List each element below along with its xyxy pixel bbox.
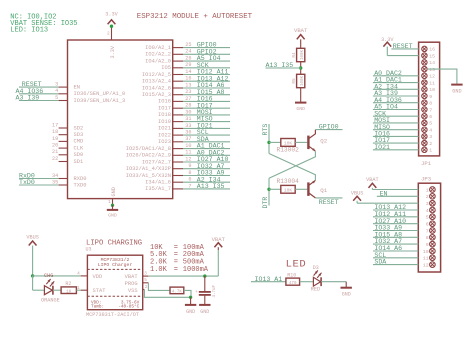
ESP3212 module U1 body [68, 40, 173, 199]
svg-text:9: 9 [429, 94, 432, 100]
svg-text:GND: GND [108, 212, 117, 218]
svg-text:10: 10 [429, 87, 435, 93]
svg-text:TXD0: TXD0 [74, 182, 87, 188]
U1 right pin 8 stub [173, 175, 183, 177]
JP1 pin 5 circle [422, 120, 427, 125]
wire R4 to node A13_I35 [300, 62, 302, 75]
wire net A5_IO4 [183, 60, 230, 62]
wire U3 VBAT to VBAT supply [148, 275, 218, 277]
JP1 pin 3 circle [422, 134, 427, 139]
wire VBUS down to VDD node [32, 246, 34, 276]
U1 left pin 34 stub [59, 178, 68, 180]
wire RTS to R13002 [269, 141, 281, 143]
JP3 pin 5 circle [430, 214, 436, 220]
svg-text:Tamb:: Tamb: [91, 304, 104, 309]
wire CHG LED to R2 [53, 289, 61, 291]
U1 left pin 5 stub [59, 100, 68, 102]
svg-text:2: 2 [145, 285, 148, 290]
svg-text:IO36/SEN_UP/A1_0: IO36/SEN_UP/A1_0 [74, 91, 126, 97]
svg-text:IO39/SEN_UN/A1_3: IO39/SEN_UN/A1_3 [74, 98, 126, 104]
U1 right pin 10 stub [173, 148, 183, 150]
wire net RESET from Q1 collector [315, 197, 342, 199]
wire net IO32_A7 to JP3 pin 9 [373, 243, 418, 245]
wire net IO15_A8 to JP3 pin 8 [373, 236, 418, 238]
JP3 pin 1 circle [430, 187, 436, 193]
svg-text:LED: LED [286, 259, 307, 271]
svg-text:RESET: RESET [393, 43, 413, 50]
svg-text:GND: GND [200, 309, 209, 315]
wire net IO13 to R10 [251, 281, 286, 283]
wire VBAT to JP3 pin 1 [372, 189, 418, 191]
svg-text:A3_I39: A3_I39 [16, 95, 40, 102]
wire net IO27_A10 [183, 161, 230, 163]
svg-text:2: 2 [107, 32, 110, 37]
svg-text:20: 20 [52, 143, 58, 149]
U1 left pin 21 (SD0) stub [59, 154, 68, 156]
svg-text:2: 2 [429, 141, 432, 147]
svg-text:1: 1 [429, 148, 432, 154]
svg-text:DTR: DTR [262, 197, 269, 209]
svg-text:CLK: CLK [74, 145, 84, 151]
resistor R13002 10K [281, 139, 295, 147]
svg-text:RXD0: RXD0 [74, 176, 87, 182]
svg-text:11: 11 [429, 80, 435, 86]
wire net EN to JP3 pin 2 [377, 195, 419, 197]
U1 left pin 17 (SD2) stub [59, 127, 68, 129]
wire net MOSI [183, 114, 230, 116]
ground symbol right of JP1 [451, 84, 462, 86]
wire RTS vertical [268, 124, 270, 154]
svg-text:12: 12 [429, 74, 435, 80]
svg-text:100K: 100K [301, 49, 305, 60]
svg-text:=: = [174, 266, 178, 274]
wire net IO21 to JP1 pin 1 [373, 149, 419, 151]
svg-text:IO32/A1_4/X32P: IO32/A1_4/X32P [126, 166, 171, 172]
wire net IO32_A7 [183, 168, 230, 170]
U3 VDD pin stub [81, 275, 88, 277]
svg-text:ORANGE: ORANGE [41, 298, 60, 304]
svg-text:GND: GND [186, 309, 195, 315]
U1 right pin 36 stub [173, 134, 183, 136]
svg-text:SD2: SD2 [74, 125, 84, 131]
JP3 pin 10 circle [430, 248, 436, 254]
svg-text:R13002: R13002 [277, 147, 300, 154]
svg-text:U3: U3 [86, 246, 92, 252]
wire net SCL to JP3 pin 11 [373, 257, 418, 259]
wire net IO13_A12 [183, 80, 230, 82]
svg-text:IO2/A2_2: IO2/A2_2 [145, 52, 171, 58]
JP3 pin 7 circle [430, 228, 436, 234]
svg-text:7: 7 [429, 107, 432, 113]
svg-text:13: 13 [429, 67, 435, 73]
svg-text:5: 5 [426, 215, 429, 221]
resistor R4 100K (upper divider) [297, 48, 305, 61]
wire 3.3V to JP1 pin 15 [387, 55, 418, 57]
svg-text:Q2: Q2 [320, 137, 327, 144]
U1 right pin 25 stub [173, 47, 183, 49]
svg-text:3.3V: 3.3V [110, 45, 116, 58]
U1 right pin 12 stub [173, 161, 183, 163]
U1 top pin 2 (3.3V) stub [111, 27, 113, 41]
wire net MISO [183, 121, 230, 123]
JP3 pin 8 circle [430, 235, 436, 241]
svg-text:6: 6 [426, 222, 429, 228]
wire net RESET [19, 86, 59, 88]
svg-text:LIPO CHARGING: LIPO CHARGING [86, 240, 142, 248]
resistor R10 470 [286, 278, 300, 285]
wire net IO12_A11 to JP3 pin 5 [373, 216, 418, 218]
svg-text:VSS: VSS [128, 288, 138, 294]
svg-text:1: 1 [77, 286, 80, 291]
U1 right pin 23 stub [173, 94, 183, 96]
wire net A1_DAC1 to JP1 pin 11 [373, 82, 419, 84]
svg-text:I35/A1_7: I35/A1_7 [145, 186, 171, 192]
wire net GPIO0 [183, 47, 230, 49]
svg-text:Q1: Q1 [320, 187, 327, 194]
U1 right pin 33 stub [173, 127, 183, 129]
svg-text:1000mA: 1000mA [183, 266, 209, 274]
wire net A3_I39 to JP1 pin 9 [373, 95, 419, 97]
JP1 pin 12 circle [422, 73, 427, 78]
svg-text:SD0: SD0 [74, 152, 84, 158]
wire net GPIO0 from Q2 collector [315, 129, 342, 131]
wire net IO15_A8 [183, 94, 230, 96]
wire VSS to ground node [144, 290, 190, 298]
power symbol VBAT (right of U3) [217, 247, 219, 250]
junction dot VBAT/C1 node [203, 274, 206, 277]
wire net IO33_A9 to JP3 pin 7 [373, 230, 418, 232]
svg-text:14: 14 [429, 60, 435, 66]
JP1 pin 15 circle [422, 53, 427, 58]
svg-text:I34/A1_6: I34/A1_6 [145, 180, 171, 186]
svg-text:4.7K: 4.7K [172, 290, 183, 294]
wire net A1_DAC1 [183, 148, 230, 150]
svg-text:5: 5 [429, 121, 432, 127]
svg-text:ESP3212 MODULE + AUTORESET: ESP3212 MODULE + AUTORESET [137, 13, 253, 21]
U1 right pin 29 stub [173, 67, 183, 69]
svg-text:21: 21 [52, 149, 58, 155]
wire net A0_DAC2 to JP1 pin 12 [373, 75, 419, 77]
junction dot VSS/R6 ground node [189, 296, 192, 299]
U1 right pin 9 stub [173, 168, 183, 170]
svg-text:CMD: CMD [74, 139, 84, 145]
junction dot VBUS/VDD node [31, 274, 34, 277]
resistor R5 100K (lower divider) [297, 74, 305, 87]
svg-text:3.3V: 3.3V [381, 37, 394, 43]
svg-text:IO0/A2_1: IO0/A2_1 [145, 45, 171, 51]
wire net SCK [183, 67, 230, 69]
wire R13002 to Q2 base [295, 141, 307, 143]
ground symbol below divider [295, 102, 306, 104]
wire R5 to ground [300, 88, 302, 102]
svg-text:TxD0: TxD0 [19, 179, 35, 186]
wire net IO27_A10 to JP3 pin 6 [373, 223, 418, 225]
svg-text:VBAT: VBAT [294, 27, 308, 34]
svg-text:IO26/DAC2/A2_9: IO26/DAC2/A2_9 [126, 153, 171, 159]
U1 right pin 37 stub [173, 141, 183, 143]
wire net A3_I39 [19, 100, 59, 102]
U1 right pin 30 stub [173, 114, 183, 116]
svg-text:11: 11 [423, 256, 429, 262]
svg-text:VBAT: VBAT [212, 236, 226, 243]
wire R13004 to Q1 base [295, 188, 307, 190]
U1 left pin 22 (SD1) stub [59, 161, 68, 163]
wire net RxD0 [19, 178, 59, 180]
svg-text:19: 19 [52, 136, 58, 142]
svg-text:2: 2 [426, 194, 429, 200]
svg-text:8: 8 [429, 101, 432, 107]
svg-text:IO4/A2_0: IO4/A2_0 [145, 58, 171, 64]
svg-text:IO21: IO21 [158, 126, 171, 132]
JP3 pin 3 circle [430, 200, 436, 206]
LED D3 (red) [313, 277, 320, 286]
wire Q1 emitter to RTS node (cross) [269, 154, 315, 181]
svg-text:GPIO0: GPIO0 [319, 124, 339, 131]
svg-text:22: 22 [52, 156, 58, 162]
svg-text:7: 7 [426, 228, 429, 234]
svg-text:RESET: RESET [319, 199, 339, 206]
U1 right pin 28 stub [173, 107, 183, 109]
svg-text:SD3: SD3 [74, 132, 84, 138]
svg-text:1: 1 [426, 187, 429, 193]
wire DTR vertical [268, 178, 270, 205]
connector JP1 body [419, 42, 440, 156]
svg-text:VDD: VDD [93, 274, 103, 280]
wire VBUS node to U3 VDD [33, 275, 81, 277]
wire net IO12_A11 [183, 74, 230, 76]
U1 left pin 35 stub [59, 184, 68, 186]
power symbol 3.3V at JP1 [383, 42, 391, 47]
U1 right pin 31 stub [173, 121, 183, 123]
svg-text:3.3V: 3.3V [105, 12, 118, 18]
JP1 pin 13 circle [422, 66, 427, 71]
U1 right pin 11 stub [173, 154, 183, 156]
ground symbol below C1 [199, 304, 210, 306]
svg-text:IO12/A2_5: IO12/A2_5 [142, 72, 171, 78]
svg-text:1: 1 [108, 200, 111, 205]
svg-text:+: + [195, 290, 198, 295]
svg-text:LIPO Charger: LIPO Charger [98, 262, 133, 268]
svg-text:IO17: IO17 [158, 106, 171, 112]
junction dot node A13_I35 [299, 66, 302, 69]
svg-text:GND: GND [452, 88, 461, 94]
wire net IO14_A6 [183, 87, 230, 89]
JP1 pin 4 circle [422, 127, 427, 132]
svg-text:5: 5 [144, 278, 147, 283]
U1 right pin 6 stub [173, 181, 183, 183]
JP1 pin 16 circle [422, 46, 427, 51]
U1 left pin 3 stub [59, 86, 68, 88]
JP1 pin 7 circle [422, 107, 427, 112]
power symbol VBUS at JP3 [353, 196, 361, 201]
JP1 pin 14 circle [422, 60, 427, 65]
wire VBUS to JP3 pin 3 [357, 202, 418, 204]
junction dot RTS node [267, 141, 270, 144]
wire R6 to ground node [184, 290, 191, 297]
svg-text:R2: R2 [65, 281, 71, 287]
svg-text:R10: R10 [287, 272, 296, 278]
svg-text:IO23: IO23 [158, 139, 171, 145]
svg-text:17: 17 [52, 122, 58, 128]
JP3 pin 6 circle [430, 221, 436, 227]
svg-text:CHG: CHG [44, 273, 53, 279]
svg-text:10: 10 [423, 249, 429, 255]
JP1 pin 1 circle [422, 147, 427, 152]
svg-text:4: 4 [426, 208, 429, 214]
junction dot DTR node [267, 188, 270, 191]
svg-text:D3: D3 [313, 265, 319, 271]
ground symbol right of D3 [345, 282, 347, 287]
svg-text:GND: GND [111, 187, 117, 196]
wire LED D3 to ground [321, 281, 346, 283]
power symbol VBAT at JP3 [369, 183, 377, 188]
wire VBAT to R4 [300, 39, 302, 48]
svg-text:LED: IO13: LED: IO13 [10, 27, 48, 35]
wire net TxD0 [19, 184, 59, 186]
wire net SDA to JP3 pin 12 [373, 264, 418, 266]
svg-text:IO25/DAC1/A2_8: IO25/DAC1/A2_8 [126, 146, 171, 152]
power symbol 3.3V (top of U1) [108, 20, 116, 25]
svg-text:8: 8 [426, 235, 429, 241]
transistor Q2 (NPN) [307, 136, 309, 150]
svg-text:470: 470 [289, 282, 297, 286]
U1 right pin 26 stub [173, 60, 183, 62]
svg-text:A13_I35: A13_I35 [266, 62, 294, 69]
wire PROG to R6 [148, 283, 170, 291]
wire net A0_DAC2 [183, 154, 230, 156]
wire net A2_I34 [183, 181, 230, 183]
JP1 pin 8 circle [422, 100, 427, 105]
svg-text:GND: GND [296, 106, 305, 112]
JP3 pin 2 circle [430, 194, 436, 200]
wire R2 to U3 STAT [76, 289, 80, 291]
svg-text:3: 3 [426, 201, 429, 207]
U1 right pin 14 stub [173, 74, 183, 76]
svg-text:18: 18 [52, 129, 58, 135]
svg-text:IO33/A1_5/X32N: IO33/A1_5/X32N [126, 173, 171, 179]
wire R10 to LED D3 [300, 281, 314, 283]
charger IC U3 body MCP73831/2 [87, 255, 142, 310]
wire net SDA [183, 141, 230, 143]
wire net SCL [183, 134, 230, 136]
ground symbol below U1 [112, 205, 114, 209]
svg-text:RED: RED [311, 287, 320, 293]
capacitor C1 4.7uF [204, 276, 206, 291]
JP3 pin 4 circle [430, 207, 436, 213]
svg-text:IO16: IO16 [158, 99, 171, 105]
U1 left pin 19 (CMD) stub [59, 140, 68, 142]
svg-text:-40-85°C: -40-85°C [118, 304, 139, 309]
svg-text:IO27/A2_7: IO27/A2_7 [142, 159, 171, 165]
svg-text:GND: GND [342, 292, 351, 298]
svg-text:IO5: IO5 [161, 65, 171, 71]
wire net IO17 to JP1 pin 2 [373, 142, 419, 144]
svg-text:4: 4 [429, 128, 432, 134]
svg-text:10K: 10K [284, 188, 293, 194]
U1 right pin 27 stub [173, 100, 183, 102]
U1 left pin 18 (SD3) stub [59, 134, 68, 136]
svg-text:6: 6 [429, 114, 432, 120]
svg-text:PROG: PROG [125, 281, 138, 287]
wire to CHG LED anode [33, 289, 45, 291]
ground symbol below R6 [190, 297, 192, 304]
resistor R13004 10K [281, 185, 295, 193]
U1 right pin 7 stub [173, 188, 183, 190]
svg-text:IO22: IO22 [158, 132, 171, 138]
svg-text:3: 3 [429, 134, 432, 140]
svg-text:1.0K: 1.0K [150, 266, 168, 274]
svg-text:IO14/A2_6: IO14/A2_6 [142, 85, 171, 91]
svg-text:VBUS: VBUS [26, 234, 38, 240]
U1 right pin 13 stub [173, 87, 183, 89]
wire JP1 pin 13 to ground [427, 69, 457, 84]
svg-text:VBAT: VBAT [125, 274, 139, 280]
svg-text:JP1: JP1 [421, 160, 432, 167]
svg-text:IO13/A2_4: IO13/A2_4 [142, 79, 171, 85]
resistor R6 4.7K (prog) [170, 287, 184, 294]
U1 left pin 20 (CLK) stub [59, 147, 68, 149]
svg-text:EN: EN [380, 190, 388, 197]
svg-text:16: 16 [429, 47, 435, 53]
JP3 pin 12 circle [430, 262, 436, 268]
svg-text:IO15/A2_3: IO15/A2_3 [142, 92, 171, 98]
wire net A4_IO36 to JP1 pin 8 [373, 102, 419, 104]
wire net MISO to JP1 pin 4 [373, 129, 419, 131]
svg-text:100K: 100K [301, 75, 305, 86]
svg-text:4.7uF: 4.7uF [213, 284, 217, 297]
wire VBUS node down to CHG LED [32, 276, 34, 290]
U3 VBAT pin stub [143, 275, 149, 277]
wire Q2 emitter to DTR node (cross) [269, 151, 315, 178]
svg-text:MCP73831T-2ACI/OT: MCP73831T-2ACI/OT [86, 312, 139, 318]
svg-text:4: 4 [77, 271, 80, 276]
U1 right pin 24 stub [173, 53, 183, 55]
wire net IO14_A6 to JP3 pin 10 [373, 250, 418, 252]
svg-text:VBUS: VBUS [351, 190, 363, 196]
wire net A5_IO4 to JP1 pin 7 [373, 109, 419, 111]
svg-text:IO18: IO18 [158, 112, 171, 118]
U1 left pin 4 stub [59, 93, 68, 95]
transistor Q1 (NPN) [307, 182, 309, 196]
svg-text:SDA: SDA [374, 259, 386, 266]
svg-text:SD1: SD1 [74, 159, 84, 165]
JP1 pin 11 circle [422, 80, 427, 85]
svg-text:IO21: IO21 [374, 144, 390, 151]
U1 bottom pin 1 (GND) stub [112, 199, 114, 206]
connector JP3 body [418, 183, 440, 272]
svg-text:A13_I35: A13_I35 [197, 183, 225, 190]
resistor R2 1K [61, 287, 76, 294]
svg-text:R5: R5 [292, 78, 297, 84]
LED CHG (orange charge LED) [44, 286, 52, 295]
svg-text:R13004: R13004 [277, 178, 300, 185]
JP1 pin 6 circle [422, 114, 427, 119]
svg-text:IO19: IO19 [158, 119, 171, 125]
JP3 pin 9 circle [430, 241, 436, 247]
svg-text:3: 3 [144, 272, 147, 277]
svg-text:RTS: RTS [262, 124, 269, 136]
wire net GPIO2 [183, 53, 230, 55]
JP3 pin 11 circle [430, 255, 436, 261]
svg-text:EN: EN [74, 84, 80, 90]
U3 VSS pin stub [143, 289, 145, 291]
JP1 pin 2 circle [422, 140, 427, 145]
U3 PROG pin stub [143, 282, 149, 284]
U1 right pin 16 stub [173, 80, 183, 82]
wire net IO17 [183, 107, 230, 109]
wire net IO21 [183, 127, 230, 129]
JP1 pin 9 circle [422, 93, 427, 98]
